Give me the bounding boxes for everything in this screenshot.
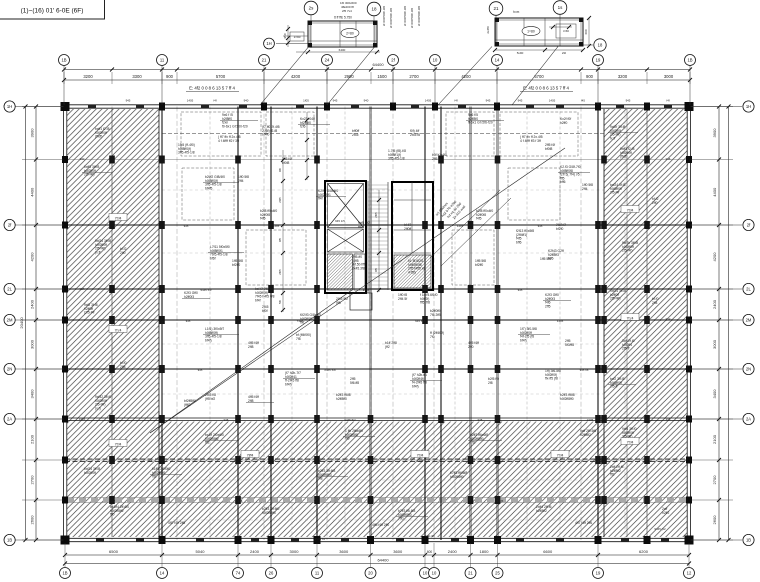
svg-text:7f.f4: 7f.f4	[627, 208, 634, 212]
svg-text:4200: 4200	[712, 252, 717, 262]
svg-text:fff6: fff6	[345, 437, 350, 441]
detail1 bubble top-right	[367, 2, 381, 16]
svg-text:2M: 2M	[746, 318, 752, 323]
svg-text:5f0: 5f0	[278, 300, 282, 304]
axis bubble left 1B	[4, 534, 15, 545]
svg-text:4400: 4400	[712, 187, 717, 197]
beam label cluster at 575,524	[575, 521, 592, 525]
right hatch boundary wall	[603, 109, 605, 537]
svg-text:945 (4f): 945 (4f)	[425, 534, 435, 538]
bottom dim tick	[160, 553, 164, 557]
svg-text:5f6.ff8: 5f6.ff8	[350, 381, 359, 385]
bottom dimension line 2 (overall)	[65, 563, 689, 565]
svg-text:12: 12	[687, 571, 692, 576]
beam label cluster at 300,120	[300, 117, 315, 129]
stair well between shafts	[367, 181, 369, 293]
upper room beam	[162, 133, 604, 135]
bottom dim tick	[432, 553, 436, 557]
svg-text:bf4f5: bf4f5	[205, 186, 212, 190]
beam label cluster at 255,290	[255, 287, 275, 302]
top dim tick	[110, 68, 114, 72]
svg-text:f0-6x1 G7200-f20: f0-6x1 G7200-f20	[222, 124, 248, 128]
beam label cluster at 488,380	[488, 377, 499, 385]
horizontal grid centerlines	[65, 159, 689, 161]
beam label cluster at 470,436	[470, 433, 488, 445]
svg-text:25: 25	[495, 571, 500, 576]
svg-text:1B: 1B	[746, 538, 751, 543]
bottom dim tick	[63, 553, 67, 557]
svg-text:1s: 1s	[558, 5, 564, 10]
svg-text:7405: 7405	[297, 319, 304, 323]
svg-text:2f05: 2f05	[374, 212, 378, 218]
wall piers top	[88, 105, 96, 109]
beam label cluster at 622,244	[622, 241, 638, 253]
svg-text:945: 945	[148, 459, 153, 463]
svg-text:3000: 3000	[664, 74, 674, 79]
beam label cluster at 178,146	[178, 143, 195, 155]
top dim tick	[391, 68, 395, 72]
svg-text:(x.f): (x.f)	[95, 406, 101, 410]
bottom dim tick	[315, 553, 319, 557]
axis bubble left 2L	[4, 283, 15, 294]
beam label cluster at 218,138	[218, 135, 241, 143]
svg-text:2L: 2L	[7, 287, 12, 292]
svg-text:(ff2: (ff2	[385, 345, 390, 349]
svg-text:h2ff2: h2ff2	[662, 511, 669, 515]
axis bubble bottom 20	[365, 568, 376, 579]
beam label cluster at 168,524	[168, 521, 185, 525]
beam label cluster at 412,376	[412, 373, 427, 388]
beam label cluster at 110,508	[110, 505, 129, 517]
beam label cluster at 450,474	[450, 471, 467, 479]
bottom dim tick	[469, 553, 473, 557]
detail1 bubble top-left	[304, 1, 318, 15]
beam label cluster at 210,248	[210, 245, 230, 260]
svg-text:bf0f: bf0f	[262, 309, 268, 313]
beam label cluster at 565,342	[565, 339, 574, 347]
axis bubble right 2M	[743, 314, 754, 325]
beam label cluster at 222,116	[222, 113, 248, 128]
svg-text:2f5-f4f: 2f5-f4f	[610, 191, 619, 195]
svg-text:b0f 300x600 4f: b0f 300x600 4f	[417, 6, 421, 26]
beam label cluster at 652,300	[652, 297, 659, 305]
svg-text:fff2: fff2	[205, 441, 210, 445]
svg-text:7ff0: 7ff0	[398, 517, 404, 521]
detail2 bubble right	[594, 39, 606, 51]
axis bubble top 2f	[388, 55, 399, 66]
svg-text:1B: 1B	[62, 571, 67, 576]
beam label cluster at 95,242	[95, 239, 111, 254]
svg-text:2A: 2A	[746, 417, 751, 422]
top dim tick	[688, 68, 692, 72]
svg-text:945 f/8: 945 f/8	[580, 368, 589, 372]
beam label cluster at 398,296	[398, 293, 407, 301]
beam label cluster at 622,342	[622, 339, 635, 351]
beam label cluster at 95,130	[95, 127, 110, 139]
beam label cluster at 468,116	[468, 113, 493, 125]
columns: right wall	[686, 156, 692, 163]
svg-text:2ff0: 2ff0	[120, 251, 126, 255]
beam2 in right strip	[626, 109, 628, 537]
vertical grid centerlines	[111, 107, 113, 541]
detail2 sub rect right	[556, 24, 576, 38]
hatch region bottom band	[159, 422, 604, 538]
outer wall left	[62, 107, 64, 541]
beam label cluster at 388,152	[388, 149, 406, 161]
svg-text:tt ff ffE 5.750: tt ff ffE 5.750	[334, 16, 352, 20]
svg-text:600: 600	[427, 550, 433, 554]
detail2 plan rect	[495, 18, 583, 46]
axis bubble top 19	[593, 55, 604, 66]
top dim tick	[325, 68, 329, 72]
svg-text:940: 940	[244, 99, 249, 103]
dashed slab openings	[181, 112, 261, 156]
top dim tick	[433, 68, 437, 72]
svg-text:2N: 2N	[7, 367, 12, 372]
svg-text:1=90: 1=90	[294, 35, 301, 39]
long leader line from band to upper right	[150, 148, 565, 433]
elevator core right shaft	[392, 182, 433, 290]
beam label cluster at 84,306	[84, 303, 98, 315]
left shaft lower hatched room	[328, 254, 353, 290]
svg-text:h2ff0: h2ff0	[560, 121, 567, 125]
svg-text:19: 19	[596, 571, 601, 576]
svg-text:bf0f8: bf0f8	[545, 147, 552, 151]
beam label cluster at 296,336	[296, 333, 311, 341]
svg-text:3900: 3900	[712, 128, 717, 138]
beam label cluster at 205,396	[205, 393, 216, 401]
svg-text:9f0: 9f0	[278, 168, 282, 172]
svg-text:6500: 6500	[109, 549, 119, 554]
svg-text:1800: 1800	[480, 549, 490, 554]
beam label cluster at 184,294	[184, 291, 198, 299]
secondary dashed beams vertical	[209, 107, 211, 541]
svg-text:h0f2ff8ff0: h0f2ff8ff0	[560, 397, 574, 401]
axis bubble right 2f	[743, 219, 754, 230]
beam label cluster at 610,468	[610, 465, 624, 477]
beam label cluster at 120,364	[120, 361, 127, 369]
svg-text:4 f 4ffff ff3 f 3ff: 4 f 4ffff ff3 f 3ff	[520, 139, 541, 143]
svg-text:6400: 6400	[339, 48, 346, 52]
svg-text:2f05: 2f05	[278, 269, 282, 275]
svg-text:bf4f): bf4f)	[205, 338, 212, 342]
svg-text:2700: 2700	[30, 475, 35, 485]
axis bubble right 1B	[743, 534, 754, 545]
detail1 level ellipse	[341, 28, 359, 37]
beam label cluster at 520,138	[520, 135, 543, 143]
svg-text:9445 5/2: 9445 5/2	[200, 288, 212, 292]
axis bubble bottom 19	[593, 568, 604, 579]
svg-text:2600: 2600	[30, 515, 35, 525]
svg-text:2f8: 2f8	[488, 381, 493, 385]
svg-text:2t0: 2t0	[562, 51, 567, 55]
svg-text:9445 (x2: 9445 (x2	[654, 527, 666, 531]
horizontal beams	[65, 223, 689, 225]
beam label cluster at 358,224	[358, 221, 370, 229]
svg-text:ffx-ff5 (f8: ffx-ff5 (f8	[545, 377, 558, 381]
svg-text:2ff4: 2ff4	[238, 179, 244, 183]
svg-text:fff2: fff2	[610, 473, 615, 477]
title box	[0, 0, 105, 19]
axis bubble left 1H	[4, 101, 15, 112]
beam label cluster at 556,226	[556, 223, 566, 231]
svg-text:21: 21	[468, 571, 473, 576]
beam label cluster at 300,316	[300, 313, 321, 325]
beam label cluster at 560,120	[560, 117, 571, 125]
svg-text:1405: 1405	[557, 319, 564, 323]
svg-text:ff-6x1 G7/2f6-f20: ff-6x1 G7/2f6-f20	[468, 121, 493, 125]
detail1 plan rect	[308, 21, 377, 47]
axis bubble right 2A	[743, 413, 754, 424]
beam label cluster at 545,296	[545, 293, 559, 308]
svg-text:3ff5.4f5-1/8: 3ff5.4f5-1/8	[388, 157, 405, 161]
svg-text:1B: 1B	[7, 538, 12, 543]
axis bubble top 21	[259, 55, 270, 66]
svg-text:26: 26	[269, 571, 274, 576]
svg-text:h=m: h=m	[513, 10, 520, 14]
svg-text:2ff5: 2ff5	[432, 157, 438, 161]
axis bubble left 2M	[4, 314, 15, 325]
svg-text:f4f: f4f	[213, 99, 216, 103]
svg-text:2f5-ff: 2f5-ff	[622, 347, 630, 351]
svg-text:1500: 1500	[377, 74, 387, 79]
bottom dim tick	[269, 553, 273, 557]
svg-text:t=60: t=60	[563, 29, 569, 33]
detail2 leaders down	[438, 47, 492, 106]
svg-text:b0f 300x600 4f: b0f 300x600 4f	[382, 6, 386, 26]
svg-text:2A: 2A	[7, 417, 12, 422]
beam label cluster at 404,226	[404, 223, 411, 231]
beam label cluster at 152,470	[152, 467, 170, 479]
beam label cluster at 582,186	[582, 183, 593, 191]
beam label cluster at 95,398	[95, 395, 111, 410]
bottom dim tick	[423, 553, 427, 557]
svg-text:940: 940	[666, 317, 671, 321]
right dimension line outer	[728, 107, 730, 541]
svg-text:2900: 2900	[344, 74, 354, 79]
svg-text:3000: 3000	[290, 549, 300, 554]
bottom dimension line 1	[65, 554, 689, 556]
svg-text:7f8 2ff5: 7f8 2ff5	[430, 313, 441, 317]
outer wall bottom	[65, 537, 689, 539]
beam label cluster at 548,252	[548, 249, 564, 261]
svg-text:18: 18	[598, 43, 603, 48]
svg-text:fff5 7f8: fff5 7f8	[420, 301, 430, 305]
left dimension line outer	[25, 107, 27, 541]
svg-text:2ff4: 2ff4	[582, 187, 588, 191]
left axis bubbles	[15, 106, 63, 108]
top dim tick	[160, 68, 164, 72]
svg-text:945: 945	[518, 99, 523, 103]
svg-text:1405: 1405	[549, 99, 556, 103]
columns: interior	[159, 221, 165, 229]
svg-text:b0f 300x600 4f: b0f 300x600 4f	[410, 8, 414, 28]
svg-text:3400: 3400	[712, 389, 717, 399]
svg-text:945: 945	[198, 368, 203, 372]
svg-text:10: 10	[432, 571, 437, 576]
axis bubble bottom 10	[420, 568, 431, 579]
svg-text:bf4f: bf4f	[255, 298, 261, 302]
rotated note text upper-right	[435, 195, 467, 227]
detail1 leaders down	[260, 48, 308, 106]
svg-text:1H: 1H	[7, 104, 12, 109]
axis bubble bottom 26	[266, 568, 277, 579]
svg-text:4ff7 f4ff 2ff6: 4ff7 f4ff 2ff6	[575, 521, 592, 525]
detail drawing 2	[438, 1, 606, 105]
svg-text:945 1/5: 945 1/5	[335, 219, 345, 223]
svg-text:1H: 1H	[746, 104, 751, 109]
svg-text:bf4f): bf4f)	[412, 384, 419, 388]
svg-text:5f0/ff8: 5f0/ff8	[565, 343, 574, 347]
svg-text:(ffxff): (ffxff)	[620, 155, 627, 159]
svg-text:2L: 2L	[746, 287, 751, 292]
svg-text:64400: 64400	[372, 62, 384, 67]
svg-text:(x.ff: (x.ff	[95, 250, 101, 254]
svg-text:2700: 2700	[712, 475, 717, 485]
beam label cluster at 238,178	[238, 175, 249, 183]
svg-text:4200: 4200	[30, 252, 35, 262]
svg-text:3300: 3300	[132, 74, 142, 79]
svg-text:5040: 5040	[196, 549, 206, 554]
svg-text:940: 940	[80, 157, 85, 161]
svg-text:1ff5 5f8: 1ff5 5f8	[540, 257, 551, 261]
svg-text:2f45: 2f45	[352, 133, 359, 137]
svg-text:3400: 3400	[30, 389, 35, 399]
beam label cluster at 430,334	[430, 331, 444, 339]
beam label cluster at 336,396	[336, 393, 351, 401]
svg-text:f4f5: f4f5	[476, 217, 482, 221]
beam label cluster at 652,200	[652, 197, 659, 205]
svg-text:(ffff2: (ffff2	[184, 403, 191, 407]
svg-text:7f/f4: 7f/f4	[247, 453, 254, 457]
columns: corner	[61, 102, 70, 111]
beam label cluster at 620,150	[620, 147, 635, 159]
svg-text:9f5: 9f5	[278, 238, 282, 242]
svg-text:4ff7 f4ff 2ff8: 4ff7 f4ff 2ff8	[168, 521, 185, 525]
svg-text:2700: 2700	[409, 74, 419, 79]
svg-text:bf6f: bf6f	[210, 256, 216, 260]
axis bubble left 2A	[4, 413, 15, 424]
top dim tick	[495, 68, 499, 72]
top dimension line 2 (overall)	[64, 79, 690, 81]
svg-text:6200: 6200	[639, 549, 649, 554]
svg-text:4400: 4400	[30, 187, 35, 197]
beam label cluster at 475,262	[475, 259, 486, 267]
svg-text:20: 20	[368, 571, 373, 576]
svg-text:5700: 5700	[216, 74, 226, 79]
axis bubble bottom 74	[233, 568, 244, 579]
svg-text:3200: 3200	[83, 74, 93, 79]
svg-text:2400: 2400	[712, 299, 717, 309]
svg-text:2x4f0: 2x4f0	[486, 26, 490, 34]
svg-text:2N: 2N	[746, 367, 751, 372]
svg-text:4200: 4200	[291, 74, 301, 79]
beam label cluster at 260,212	[260, 209, 277, 221]
beam label cluster at 432,156	[432, 153, 447, 161]
beam label cluster at 610,292	[610, 289, 626, 301]
beam label cluster at 560,396	[560, 393, 575, 401]
small room below core	[350, 293, 372, 310]
svg-text:945: 945	[184, 224, 189, 228]
svg-text:2=80: 2=80	[346, 31, 354, 35]
detail2 bubble top-left	[489, 2, 503, 16]
beam label cluster at 262,308	[262, 305, 269, 313]
svg-text:64400: 64400	[377, 557, 389, 562]
svg-text:2s: 2s	[309, 6, 315, 11]
axis bubble bottom 21	[465, 568, 476, 579]
svg-text:bf4f): bf4f)	[285, 382, 292, 386]
svg-text:945: 945	[333, 99, 338, 103]
svg-text:21: 21	[262, 58, 267, 63]
svg-text:945: 945	[224, 418, 229, 422]
svg-text:74: 74	[236, 571, 241, 576]
beam label cluster at 262,510	[262, 507, 279, 515]
right axis bubbles	[691, 106, 742, 108]
svg-text:1405: 1405	[457, 224, 464, 228]
svg-text:24: 24	[325, 58, 330, 63]
svg-text:3ff5.4f5-1/8: 3ff5.4f5-1/8	[178, 151, 195, 155]
beam label cluster at 372,526	[372, 523, 389, 527]
beam label cluster at 536,508	[536, 505, 552, 513]
beam label cluster at 622,430	[622, 427, 637, 439]
wall piers bottom	[96, 538, 104, 542]
axis bubble top 10	[430, 55, 441, 66]
svg-text:fx.ff: fx.ff	[610, 136, 615, 140]
svg-text:2ff0ff: 2ff0ff	[404, 227, 411, 231]
secondary dashed beams horizontal	[162, 189, 604, 191]
svg-text:2ff0: 2ff0	[652, 201, 658, 205]
svg-text:2f5-f4f): 2f5-f4f)	[622, 249, 632, 253]
beam label cluster at 205,178	[205, 175, 225, 190]
beam label cluster at 248,398	[248, 395, 259, 403]
svg-text:3900: 3900	[30, 128, 35, 138]
beam label cluster at 476,212	[476, 209, 493, 221]
svg-text:2405 5/8: 2405 5/8	[324, 368, 336, 372]
svg-text:2f5 7x4: 2f5 7x4	[342, 9, 352, 13]
svg-text:1405: 1405	[417, 459, 424, 463]
axis bubble left 2f	[4, 219, 15, 230]
svg-text:1405: 1405	[425, 99, 432, 103]
axis bubble bottom 12	[684, 568, 695, 579]
svg-text:(1)~(16) 01′ 6-0E (6F): (1)~(16) 01′ 6-0E (6F)	[21, 8, 84, 15]
svg-text:5x90: 5x90	[517, 51, 524, 55]
detail1 left dims	[287, 25, 289, 47]
label underlines (leader bars)	[220, 120, 258, 122]
beam label cluster at 336,300	[336, 297, 348, 305]
svg-text:1405: 1405	[79, 417, 86, 421]
svg-text:945: 945	[238, 499, 243, 503]
svg-text:900: 900	[586, 74, 594, 79]
top axis bubbles	[63, 66, 65, 105]
top dimension line 1	[64, 69, 690, 71]
svg-text:7f (4: 7f (4	[115, 328, 122, 332]
elevator car diagonals left shaft	[328, 184, 364, 228]
axis bubble top 14	[492, 55, 503, 66]
svg-text:945: 945	[468, 368, 473, 372]
top dim tick	[369, 68, 373, 72]
svg-text:945: 945	[186, 319, 191, 323]
axis bubble left 2N	[4, 363, 15, 374]
bottom dim tick	[687, 553, 691, 557]
right dimension line inner	[718, 107, 720, 541]
svg-text:h2ff8ff2: h2ff8ff2	[580, 433, 591, 437]
svg-text:bff6: bff6	[516, 240, 522, 244]
axis bubble top 1B	[59, 55, 70, 66]
svg-text:940: 940	[364, 99, 369, 103]
svg-text:2600: 2600	[712, 515, 717, 525]
interior mini dimension chains	[282, 150, 284, 312]
beam label cluster at 318,472	[318, 469, 335, 481]
